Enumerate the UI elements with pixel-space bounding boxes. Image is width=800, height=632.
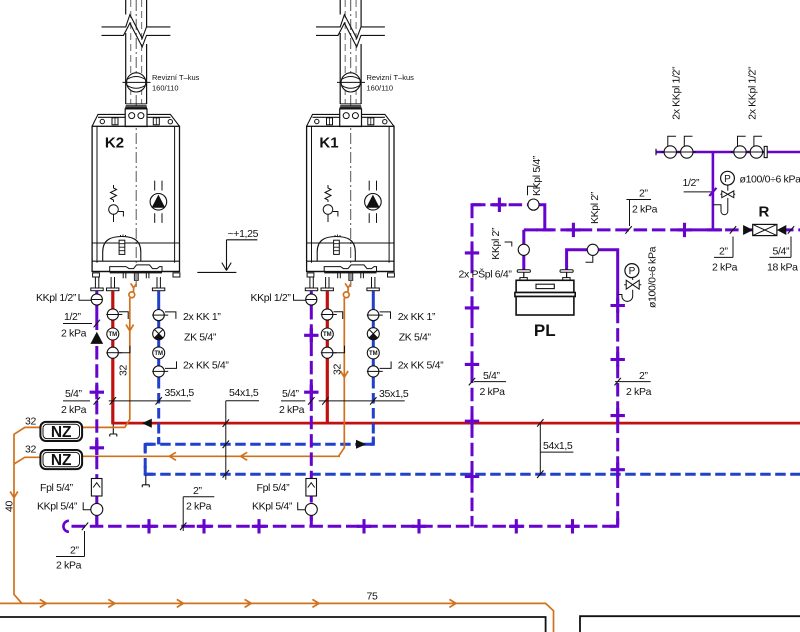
svg-text:PL: PL: [534, 321, 556, 340]
svg-text:P: P: [629, 266, 636, 277]
svg-text:54x1,5: 54x1,5: [229, 387, 259, 399]
svg-text:2 kPa: 2 kPa: [480, 386, 506, 398]
svg-text:2 kPa: 2 kPa: [632, 204, 658, 216]
svg-text:R: R: [759, 204, 770, 221]
svg-text:32: 32: [332, 364, 344, 375]
svg-text:2x KK 1”: 2x KK 1”: [398, 311, 436, 323]
svg-text:5/4”: 5/4”: [282, 388, 300, 400]
svg-text:KKpl 1/2”: KKpl 1/2”: [36, 292, 77, 304]
svg-text:KKpl 5/4”: KKpl 5/4”: [37, 501, 78, 513]
svg-text:2x KKpl 1/2”: 2x KKpl 1/2”: [747, 66, 759, 120]
svg-text:ZK 5/4”: ZK 5/4”: [184, 332, 217, 344]
svg-text:35x1,5: 35x1,5: [165, 387, 195, 399]
svg-text:2 kPa: 2 kPa: [279, 404, 305, 416]
svg-text:2 kPa: 2 kPa: [626, 386, 652, 398]
svg-text:K1: K1: [319, 135, 338, 152]
svg-text:32: 32: [25, 416, 36, 428]
svg-text:K2: K2: [105, 135, 124, 152]
svg-text:P: P: [724, 174, 731, 185]
svg-text:2x KK 1”: 2x KK 1”: [183, 311, 221, 323]
svg-text:NZ: NZ: [51, 424, 72, 441]
svg-text:2x PŠpl 6/4”: 2x PŠpl 6/4”: [459, 268, 513, 281]
svg-text:KKpl 5/4”: KKpl 5/4”: [252, 501, 293, 513]
svg-text:Fpl 5/4”: Fpl 5/4”: [40, 482, 74, 494]
svg-text:2”: 2”: [719, 246, 728, 258]
svg-text:32: 32: [25, 444, 36, 456]
svg-text:KKpl 2”: KKpl 2”: [589, 191, 601, 224]
svg-text:1/2”: 1/2”: [64, 311, 82, 323]
svg-text:2 kPa: 2 kPa: [61, 328, 87, 340]
svg-text:KKpl 5/4”: KKpl 5/4”: [531, 155, 543, 196]
svg-text:KKpl 2”: KKpl 2”: [490, 227, 502, 260]
svg-text:2 kPa: 2 kPa: [712, 262, 738, 274]
svg-text:54x1,5: 54x1,5: [543, 440, 573, 452]
svg-text:5/4”: 5/4”: [773, 246, 791, 258]
svg-text:2”: 2”: [639, 188, 648, 200]
svg-text:ZK 5/4”: ZK 5/4”: [399, 332, 432, 344]
svg-text:32: 32: [118, 365, 130, 376]
svg-text:75: 75: [367, 591, 378, 603]
svg-text:5/4”: 5/4”: [65, 388, 83, 400]
svg-text:40: 40: [4, 501, 16, 512]
svg-text:2”: 2”: [639, 370, 648, 382]
svg-text:~+1,25: ~+1,25: [228, 228, 259, 240]
svg-text:ø100/0÷6 kPa: ø100/0÷6 kPa: [647, 246, 659, 308]
svg-text:1/2”: 1/2”: [683, 177, 701, 189]
svg-text:Fpl 5/4”: Fpl 5/4”: [257, 482, 291, 494]
svg-text:5/4”: 5/4”: [483, 370, 501, 382]
svg-text:2 kPa: 2 kPa: [186, 501, 212, 513]
svg-text:2”: 2”: [193, 485, 202, 497]
svg-text:2x KK 5/4”: 2x KK 5/4”: [183, 360, 229, 372]
svg-text:2 kPa: 2 kPa: [56, 560, 82, 572]
svg-text:2”: 2”: [70, 545, 79, 557]
svg-text:2 kPa: 2 kPa: [61, 404, 87, 416]
svg-text:18 kPa: 18 kPa: [767, 262, 798, 274]
svg-text:2x KK 5/4”: 2x KK 5/4”: [398, 360, 444, 372]
svg-text:NZ: NZ: [51, 452, 72, 469]
svg-text:KKpl 1/2”: KKpl 1/2”: [251, 292, 292, 304]
svg-text:ø100/0÷6 kPa: ø100/0÷6 kPa: [740, 174, 800, 186]
svg-text:35x1,5: 35x1,5: [379, 388, 409, 400]
svg-text:2x KKpl 1/2”: 2x KKpl 1/2”: [671, 66, 683, 120]
